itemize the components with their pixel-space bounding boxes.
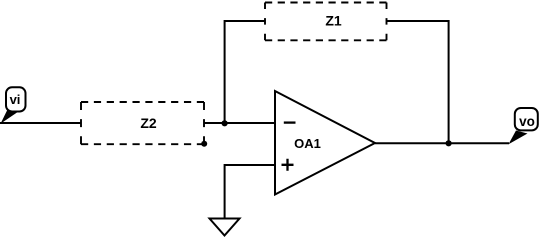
svg-text:vo: vo [519,114,535,129]
svg-text:Z2: Z2 [140,115,157,131]
svg-text:OA1: OA1 [294,136,321,151]
svg-text:vi: vi [10,92,21,107]
svg-text:Z1: Z1 [325,13,342,29]
